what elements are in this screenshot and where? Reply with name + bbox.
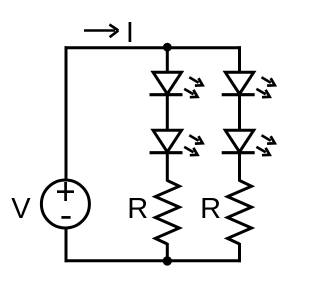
svg-text:V: V: [11, 193, 31, 225]
svg-text:R: R: [200, 193, 221, 225]
svg-text:I: I: [126, 17, 134, 49]
svg-text:R: R: [127, 193, 148, 225]
